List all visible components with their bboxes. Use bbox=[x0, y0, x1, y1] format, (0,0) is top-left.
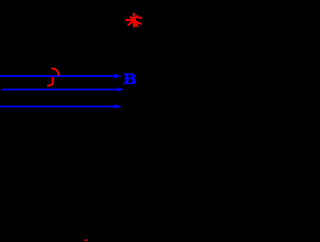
star center blob bbox=[131, 18, 136, 23]
star ray N bbox=[133, 13, 135, 19]
arrowhead of field line 2 bbox=[116, 87, 124, 92]
helix upper arc (particle trajectory above line 1) bbox=[51, 69, 58, 76]
field line 2 (middle B line) bbox=[2, 89, 117, 91]
star ray ENE bbox=[138, 17, 142, 20]
star ray S bbox=[133, 22, 135, 27]
field line 3 (bottom B line) bbox=[0, 106, 115, 108]
star ray SW bbox=[128, 22, 133, 25]
particle dot at bottom bbox=[85, 239, 88, 241]
helix lower arc (particle trajectory below line 1) bbox=[47, 77, 53, 86]
star ray NW bbox=[130, 17, 132, 19]
star ray NE bbox=[135, 15, 138, 18]
star ray W bbox=[125, 19, 132, 22]
svg-text:B: B bbox=[123, 71, 137, 88]
arrowhead of field line 3 bbox=[114, 104, 122, 109]
star ray SSE bbox=[135, 22, 138, 27]
field line 1 (top B line) bbox=[0, 75, 115, 77]
starburst (spark) bbox=[125, 13, 142, 27]
star ray SE bbox=[136, 22, 142, 24]
arrowhead of field line 1 bbox=[114, 74, 122, 79]
